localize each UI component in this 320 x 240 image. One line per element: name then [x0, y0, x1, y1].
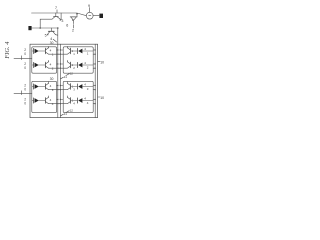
label 9: [88, 4, 90, 8]
svg-text:12: 12: [70, 109, 74, 113]
wire stub c1: [57, 85, 58, 87]
wire row link d: [57, 103, 64, 105]
bus column line A: [57, 44, 59, 117]
svg-text:2: 2: [72, 28, 74, 32]
wire row select 2: [14, 93, 32, 95]
wire leader for label 9: [89, 8, 91, 13]
transistor M23R: [63, 82, 75, 92]
transistor M24R: [63, 96, 75, 106]
bus right line: [94, 44, 96, 117]
wire stub d1: [57, 99, 58, 101]
svg-text:5: 5: [45, 33, 47, 37]
label 6: [66, 24, 68, 28]
svg-text:0: 0: [24, 52, 26, 56]
transistor M11R: [63, 46, 75, 56]
svg-text:30: 30: [50, 41, 54, 45]
wire stub d2: [60, 99, 63, 101]
wire leader for label 10 row2: [98, 96, 100, 98]
wire stub d4: [93, 99, 95, 101]
wire column drop: [57, 28, 59, 44]
photodiode D11R: [71, 47, 94, 56]
wire stub b2: [60, 63, 63, 65]
svg-text:7: 7: [55, 6, 57, 10]
photodiode D23R: [71, 83, 94, 92]
wire leader for label 4: [53, 39, 56, 42]
svg-text:0: 0: [24, 88, 26, 92]
wire row link c: [57, 89, 64, 91]
wire row link b: [57, 67, 64, 69]
node label 7: [55, 6, 57, 10]
transistor M12L: [45, 60, 56, 70]
wire stub d3: [93, 103, 95, 105]
wire leader for label 12 row2: [66, 111, 69, 113]
cell P11 box: [32, 47, 57, 73]
wire row select 1: [14, 58, 32, 60]
unit photodiode D23L: [32, 84, 46, 89]
label 2: [72, 28, 74, 32]
label 4: [50, 37, 52, 41]
junction node A: [39, 27, 41, 29]
array outer box: [30, 44, 98, 117]
wire stub a4: [93, 49, 95, 51]
transistor Q1: [52, 13, 61, 21]
wire leader for label 11 row1: [61, 77, 64, 79]
wire stub a3: [93, 53, 95, 55]
label 3: [61, 19, 63, 23]
transistor M12R: [63, 60, 75, 70]
wire stub c3: [93, 89, 95, 91]
svg-text:12: 12: [70, 72, 74, 76]
cell P12 box: [63, 47, 93, 73]
label 20 unit c: [24, 84, 26, 92]
label 11 row1: [64, 75, 67, 79]
transistor M24L: [45, 96, 56, 106]
label 20 unit b: [24, 62, 26, 70]
wire input: [32, 27, 58, 29]
unit photodiode D12L: [32, 62, 46, 67]
svg-text:3: 3: [61, 19, 63, 23]
label 10 row2: [100, 96, 104, 100]
wire leader for label 2: [72, 25, 74, 28]
wire leader for label 11 row2: [61, 114, 64, 116]
wire stub c2: [60, 85, 63, 87]
wire leader for label 12 row1: [66, 74, 69, 76]
transistor Q3: [47, 28, 58, 36]
label 10 row1: [100, 60, 104, 64]
svg-text:6: 6: [66, 24, 68, 28]
wire output: [93, 15, 99, 17]
label 30: [50, 41, 54, 45]
svg-text:FIG. 4: FIG. 4: [4, 41, 11, 60]
junction node B: [57, 27, 59, 29]
wire stub c4: [93, 85, 95, 87]
transistor Q2: [70, 13, 78, 24]
bus column line B: [59, 44, 61, 117]
wire feedback loop: [40, 19, 52, 28]
transistor M11L: [45, 46, 56, 56]
label 20 unit d: [24, 98, 26, 106]
cell P21 box: [32, 81, 57, 112]
label 20 unit a: [24, 48, 26, 56]
label 31: [50, 77, 54, 81]
wire stub a2: [60, 49, 63, 51]
terminal input: [28, 26, 31, 30]
svg-text:10: 10: [100, 60, 104, 64]
svg-text:30: 30: [50, 77, 54, 81]
label 12 row2: [70, 109, 74, 113]
label 11 row2: [64, 112, 67, 116]
unit photodiode D11L: [32, 48, 46, 53]
cell P22 box: [63, 81, 93, 112]
wire stub b1: [57, 63, 58, 65]
wire stub a1: [57, 49, 58, 51]
bus tick row 2: [21, 91, 23, 95]
wire row link a: [57, 53, 64, 55]
current source CS1: [86, 12, 93, 19]
svg-text:10: 10: [100, 96, 104, 100]
transistor M23L: [45, 82, 56, 92]
svg-text:11: 11: [64, 112, 67, 116]
svg-text:0: 0: [24, 66, 26, 70]
svg-text:0: 0: [24, 102, 26, 106]
wire leader for label 10 row1: [98, 61, 100, 63]
wire top rail: [32, 13, 87, 16]
label 12 row1: [70, 72, 74, 76]
label 5: [45, 33, 47, 37]
photodiode D24R: [71, 97, 94, 106]
unit photodiode D24L: [32, 98, 46, 103]
wire stub b4: [93, 63, 95, 65]
photodiode D12R: [71, 61, 94, 70]
terminal output: [99, 14, 103, 18]
wire stub b3: [93, 67, 95, 69]
bus tick row 1: [21, 56, 23, 60]
wire leader for label 7: [56, 10, 58, 13]
